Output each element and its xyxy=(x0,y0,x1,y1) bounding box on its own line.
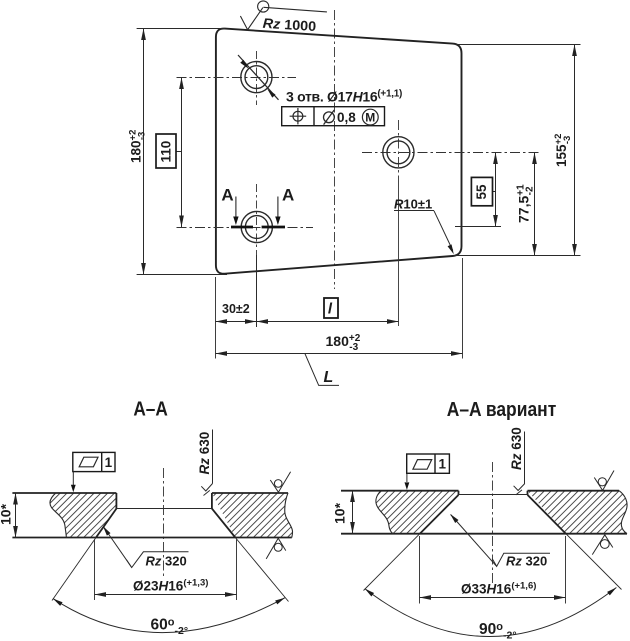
Rz 630 extension line right xyxy=(524,432,526,484)
diameter 33 dimension: left extension line xyxy=(419,536,421,604)
diameter 23 dimension: left extension line xyxy=(94,540,96,601)
roughness text Rz 630 right (rotated) xyxy=(509,427,524,470)
bore wall right edge xyxy=(211,493,213,509)
hole H3 (right) bore inner circle xyxy=(387,141,410,164)
section axis centerline right xyxy=(492,462,494,585)
svg-text:1: 1 xyxy=(439,456,447,471)
diameter symbol in tolerance frame xyxy=(324,112,335,123)
dimension 180 bottom: right extension line xyxy=(462,258,464,359)
flatness frame leader arrowhead right xyxy=(405,482,410,490)
flatness symbol parallelogram right xyxy=(413,460,432,470)
svg-text:Rz 630: Rz 630 xyxy=(509,427,524,470)
Rz 630 small tick right xyxy=(516,490,522,495)
break line wavy right right-section xyxy=(619,491,627,534)
svg-text:1: 1 xyxy=(105,455,113,470)
hole H3 (right) countersink outer circle xyxy=(383,137,414,168)
dimension text 155 (right, rotated) with tolerance +2/-3 xyxy=(553,134,573,167)
top surface line right section left part xyxy=(341,490,459,492)
Rz 630 check symbol left xyxy=(201,484,212,492)
dimension 180 bottom: dimension line with arrows xyxy=(216,353,463,355)
angle 60 arc arrowhead right xyxy=(275,596,286,605)
plate central vertical axis centerline xyxy=(334,10,336,289)
surface finish symbol Rz 1000 circle xyxy=(258,1,269,12)
svg-text:Rz 320: Rz 320 xyxy=(146,554,187,569)
dimension 55: dimension line with arrows xyxy=(495,153,497,227)
break line wavy left xyxy=(50,493,66,538)
dimension 30±2: left extension line (plate edge extended) xyxy=(215,277,217,359)
Rz 320 check symbol left xyxy=(126,552,188,568)
hole H1 (top) vertical centerline xyxy=(256,51,258,105)
svg-text:A–A вариант: A–A вариант xyxy=(447,399,557,421)
surface finish symbol Rz 1000 check mark xyxy=(240,8,263,30)
surface symbol bottom-right of right section: circle xyxy=(600,540,609,549)
section cutting plane A-A thick segment left xyxy=(231,226,253,229)
flatness symbol parallelogram left xyxy=(79,457,98,467)
svg-text:55: 55 xyxy=(474,184,489,200)
label L leader polyline xyxy=(305,353,339,385)
leader arrowhead on outer circle of H1 xyxy=(266,87,276,97)
surface symbol top-right of left section: circle xyxy=(274,480,282,488)
dimension l: frame box xyxy=(324,298,338,318)
countersink cone left edge xyxy=(96,509,116,538)
cone-bore junction visible edge right-section xyxy=(459,494,528,496)
svg-text:R10±1: R10±1 xyxy=(394,197,432,212)
svg-text:A–A: A–A xyxy=(133,399,168,421)
svg-text:A: A xyxy=(282,186,294,205)
dimension 180 left: top extension line xyxy=(137,28,225,30)
svg-text:0,8: 0,8 xyxy=(337,110,356,125)
cone-bore junction visible edge xyxy=(116,508,211,510)
flatness tolerance frame right: box xyxy=(407,454,450,473)
dimension text 77,5 (rotated) with tolerance +1/-2 xyxy=(515,184,535,223)
dimension 10* right section: dimension line with arrows xyxy=(352,491,354,534)
flatness tolerance frame left: divider xyxy=(101,452,103,471)
bore wall right edge right-section xyxy=(527,491,529,495)
hole H1 (top) bore inner circle xyxy=(245,66,268,89)
hole H2 (bottom) horizontal centerline xyxy=(177,227,314,229)
dimension 155 right: top extension line xyxy=(455,44,581,46)
angle 90 arc arrowhead left xyxy=(363,587,374,597)
break line wavy right xyxy=(285,493,293,538)
hole H1 (top) countersink outer circle xyxy=(241,62,272,93)
angle 60 extension line right xyxy=(235,538,288,602)
surface symbol bottom-right of right section: check xyxy=(592,535,613,555)
dimension 180 left: bottom extension line xyxy=(137,274,227,276)
dimension 10*: dimension line with arrows xyxy=(15,493,17,538)
hatched cut area left block xyxy=(50,493,116,538)
Rz 630 small tick left xyxy=(204,490,210,495)
dimension 55: lower extension line xyxy=(455,226,501,228)
dimension 110: connector from frame to dimension line xyxy=(176,151,182,153)
svg-text:90о-2°: 90о-2° xyxy=(479,621,517,641)
dimension text 55 (boxed, rotated) xyxy=(474,184,489,200)
countersink cone right edge xyxy=(212,509,235,538)
dimension text 10* right section (rotated) xyxy=(331,502,347,524)
dimension 30±2: right extension line (hole centerline extended) xyxy=(256,255,258,327)
top surface line right part xyxy=(212,492,288,494)
surface roughness text Rz 1000 xyxy=(262,16,317,34)
svg-text:30±2: 30±2 xyxy=(222,302,250,316)
radius R10 leader slant line xyxy=(434,211,453,251)
angle 60 arc arrowhead left xyxy=(52,597,63,606)
dimension 155 right: dimension line with arrows xyxy=(574,45,576,256)
dimension 55: frame box xyxy=(471,177,492,205)
svg-text:77,5+1-2: 77,5+1-2 xyxy=(515,184,535,223)
countersink cone left edge right-section xyxy=(420,495,459,534)
svg-text:A: A xyxy=(221,186,233,205)
bottom surface line right section xyxy=(341,533,627,535)
svg-text:Ø33H16(+1,6): Ø33H16(+1,6) xyxy=(461,581,536,597)
Rz 320 leader right with arrowhead xyxy=(451,515,497,567)
flatness frame leader left xyxy=(72,472,74,485)
surface symbol top-right of right section: circle xyxy=(598,478,606,486)
surface symbol top-right of left section: check xyxy=(270,472,290,493)
radius R10 leader arrowhead xyxy=(448,244,456,255)
svg-text:60о-2°: 60о-2° xyxy=(151,617,189,638)
bottom surface line xyxy=(12,537,291,539)
hole H2 (bottom) countersink outer circle xyxy=(241,211,272,242)
hole H1 (top) horizontal centerline xyxy=(177,77,297,79)
leader line through hole H1 for hole callout xyxy=(238,55,279,100)
hatched cut area right block right-section xyxy=(528,491,628,534)
diameter 23 dimension line with arrows xyxy=(95,594,237,596)
surface finish symbol Rz 1000 bar xyxy=(263,7,327,12)
dimension text 10* left section (rotated) xyxy=(0,503,14,525)
plate outline xyxy=(216,29,462,274)
dimension 30±2: dimension line with arrows xyxy=(216,321,257,323)
dimension text 110 (boxed, rotated) xyxy=(159,141,174,163)
hatched cut area left block right-section xyxy=(376,491,459,534)
diameter 33 dimension: right extension line xyxy=(565,536,567,604)
angle 60 dimension arc xyxy=(53,598,285,633)
svg-text:Ø23H16(+1,3): Ø23H16(+1,3) xyxy=(133,578,208,594)
section cutting plane A-A thick segment right xyxy=(262,226,285,229)
hole H2 (bottom) vertical centerline xyxy=(256,184,258,250)
dimension 110: dimension line with arrows xyxy=(181,78,183,228)
svg-text:l: l xyxy=(328,301,333,318)
section arrow A left: shaft xyxy=(235,197,237,219)
angle 60 extension line left xyxy=(52,538,96,601)
Rz 320 check symbol right xyxy=(492,553,550,566)
position tolerance frame box xyxy=(282,107,385,126)
top surface line left section xyxy=(12,492,116,494)
leader arrowhead on inner circle of H1 xyxy=(240,60,250,70)
dimension 155 right: bottom extension line xyxy=(454,255,581,257)
surface symbol bottom-right of left section: check xyxy=(266,538,286,559)
Rz 630 extension line left xyxy=(212,430,214,484)
bore wall left edge right-section xyxy=(458,491,460,495)
dimension 55: connector from frame xyxy=(493,191,496,193)
radius R10 leader underline xyxy=(394,210,434,212)
svg-text:3 отв. Ø17H16(+1,1): 3 отв. Ø17H16(+1,1) xyxy=(286,89,402,105)
svg-text:Rz 630: Rz 630 xyxy=(197,432,212,475)
Rz 630 check symbol right xyxy=(514,484,525,491)
roughness text Rz 630 left (rotated) xyxy=(197,432,212,475)
hole H3 (right) vertical centerline extended down as extension line xyxy=(398,120,400,182)
svg-text:155+2-3: 155+2-3 xyxy=(553,134,573,167)
svg-text:10*: 10* xyxy=(331,502,347,524)
hole H3 (right) horizontal centerline xyxy=(362,152,540,154)
svg-text:180+2-3: 180+2-3 xyxy=(326,333,361,353)
position tolerance frame divider xyxy=(313,107,315,126)
flatness tolerance frame left: box xyxy=(73,452,115,471)
svg-text:10*: 10* xyxy=(0,503,14,525)
angle 90 dimension arc xyxy=(365,588,617,637)
section arrow A right: shaft xyxy=(277,197,279,219)
Rz 320 leader left with arrowhead xyxy=(103,527,131,568)
svg-text:M: M xyxy=(365,110,375,124)
dimension 110: frame box xyxy=(156,134,176,168)
surface symbol top-right of right section: check xyxy=(594,471,614,491)
flatness frame leader arrowhead left xyxy=(71,485,76,493)
break line wavy left right-section xyxy=(376,491,393,534)
top surface line right section right part xyxy=(528,490,620,492)
position symbol circle with cross xyxy=(293,111,303,121)
dimension text 180 (left, rotated) with tolerance +2/-3 xyxy=(128,130,148,163)
section arrow A left: head xyxy=(233,217,238,226)
dimension l (boxed): dimension line with arrows xyxy=(257,321,399,323)
hole H2 (bottom) bore inner circle xyxy=(245,216,268,239)
angle 90 arc arrowhead right xyxy=(607,586,618,596)
flatness tolerance frame right: divider xyxy=(434,454,436,473)
diameter 23 dimension: right extension line xyxy=(236,540,238,601)
svg-text:180+2-3: 180+2-3 xyxy=(128,130,148,163)
countersink cone right edge right-section xyxy=(528,495,566,534)
surface symbol bottom-right of left section: circle xyxy=(274,543,282,551)
hatched cut area right block xyxy=(212,493,293,538)
svg-text:Rz 320: Rz 320 xyxy=(506,554,547,569)
section axis centerline left xyxy=(163,468,165,578)
bore wall left edge xyxy=(115,493,117,509)
dimension 180 left: dimension line with arrows xyxy=(143,29,145,275)
svg-text:110: 110 xyxy=(159,141,174,163)
diameter 33 dimension line with arrows xyxy=(420,597,566,599)
M circle modifier symbol xyxy=(362,109,378,125)
flatness frame leader right xyxy=(406,473,408,482)
angle 90 extension line left xyxy=(364,534,420,591)
angle 90 extension line right xyxy=(566,534,622,590)
svg-text:L: L xyxy=(324,369,334,386)
dimension 77,5: dimension line with arrows xyxy=(534,153,536,256)
section arrow A right: head xyxy=(275,217,280,226)
